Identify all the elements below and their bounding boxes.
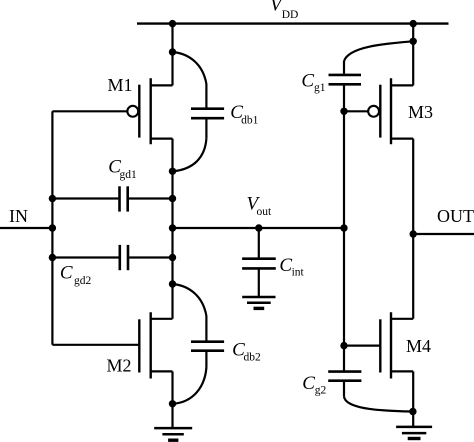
transistor M2 (NMOS) xyxy=(139,312,172,378)
label Cdb2 xyxy=(232,339,261,363)
junction dot: Cdb2 lower branch xyxy=(169,400,176,407)
capacitor Cdb1 xyxy=(173,52,225,171)
wire M3 gate xyxy=(344,110,368,112)
junction dot: gate bus / Vout xyxy=(340,224,347,231)
wire VDD rail xyxy=(137,22,449,24)
node Vout label xyxy=(247,194,273,218)
svg-text:M1: M1 xyxy=(108,75,133,95)
svg-text:M3: M3 xyxy=(408,102,433,122)
svg-text:C: C xyxy=(60,263,73,284)
label Cint xyxy=(279,255,304,279)
junction dot: middle bus at VDD rail xyxy=(169,20,176,27)
svg-text:db1: db1 xyxy=(241,114,259,126)
svg-text:C: C xyxy=(279,255,292,276)
capacitor Cg1 xyxy=(329,41,414,84)
svg-text:M4: M4 xyxy=(406,336,431,356)
capacitor Cgd1 xyxy=(52,186,172,211)
svg-text:C: C xyxy=(301,71,314,92)
svg-text:gd1: gd1 xyxy=(120,169,138,181)
wire OUT lead xyxy=(413,233,474,235)
junction dot: middle bus / Vout xyxy=(169,224,176,231)
junction dot: middle bus / Cgd2 xyxy=(169,254,176,261)
wire gate bus (Cg1 to Cg2) xyxy=(343,84,345,371)
label Cdb1 xyxy=(230,102,258,126)
svg-text:OUT: OUT xyxy=(437,206,474,226)
wire M2 gate to left bus xyxy=(52,344,139,346)
junction dot: Cg1 branch at M3 source xyxy=(410,38,417,45)
wire left input bus xyxy=(51,111,53,344)
wire M4 gate xyxy=(344,345,380,347)
junction dot: Vout / Cint xyxy=(255,224,262,231)
wire middle bus: M1 drain to M2 drain xyxy=(171,139,173,319)
label Cgd2 xyxy=(60,263,92,287)
junction dot: middle bus / Cgd1 xyxy=(169,195,176,202)
wire right bus: M3 drain to M4 drain xyxy=(412,139,414,319)
label Cgd1 xyxy=(108,157,137,181)
junction dot: Cdb2 upper branch xyxy=(169,280,176,287)
wire right bus: VDD rail to M3 source xyxy=(412,24,414,86)
junction dot: right bus at VDD rail xyxy=(410,20,417,27)
ground (Cint) xyxy=(242,297,275,308)
svg-text:g2: g2 xyxy=(315,385,327,397)
ground (M2) xyxy=(154,428,192,440)
junction dot: right bus / OUT xyxy=(410,230,417,237)
junction dot: left bus / IN xyxy=(49,224,56,231)
transistor M4 (NMOS) xyxy=(380,312,413,378)
capacitor Cint xyxy=(242,228,276,297)
junction dot: Cdb1 upper branch xyxy=(169,48,176,55)
svg-text:IN: IN xyxy=(9,206,28,226)
capacitor Cg2 xyxy=(328,372,413,412)
svg-text:g1: g1 xyxy=(314,82,326,94)
label Cg1 xyxy=(301,71,325,94)
svg-text:db2: db2 xyxy=(244,352,262,364)
label Cg2 xyxy=(302,373,326,396)
capacitor Cgd2 xyxy=(52,245,172,270)
junction dot: Cdb1 lower branch xyxy=(169,168,176,175)
junction dot: gate bus / M4 gate xyxy=(340,342,347,349)
junction dot: left bus / Cgd1 xyxy=(49,195,56,202)
wire middle bus: VDD rail to M1 source lead xyxy=(171,24,173,86)
svg-text:DD: DD xyxy=(282,9,299,21)
wire M2 source to ground xyxy=(171,371,173,428)
junction dot: Cg2 / M4 source xyxy=(409,408,416,415)
transistor M1 (PMOS) xyxy=(127,78,172,144)
capacitor Cdb2 xyxy=(173,284,225,404)
junction dot: left bus / Cgd2 xyxy=(49,254,56,261)
svg-text:out: out xyxy=(257,206,273,218)
svg-text:M2: M2 xyxy=(107,356,132,376)
wire Vout: middle bus to gate bus xyxy=(173,227,345,229)
wire M1 gate to left bus xyxy=(52,110,127,112)
junction dot: gate bus / M3 gate xyxy=(340,108,347,115)
ground (M4) xyxy=(396,427,432,439)
svg-text:C: C xyxy=(302,373,315,394)
transistor M3 (PMOS) xyxy=(368,78,413,144)
node VDD label xyxy=(270,0,298,21)
svg-text:int: int xyxy=(292,267,305,279)
svg-text:gd2: gd2 xyxy=(74,275,92,287)
wire IN lead xyxy=(0,227,52,229)
wire M4 source to ground xyxy=(412,371,414,427)
